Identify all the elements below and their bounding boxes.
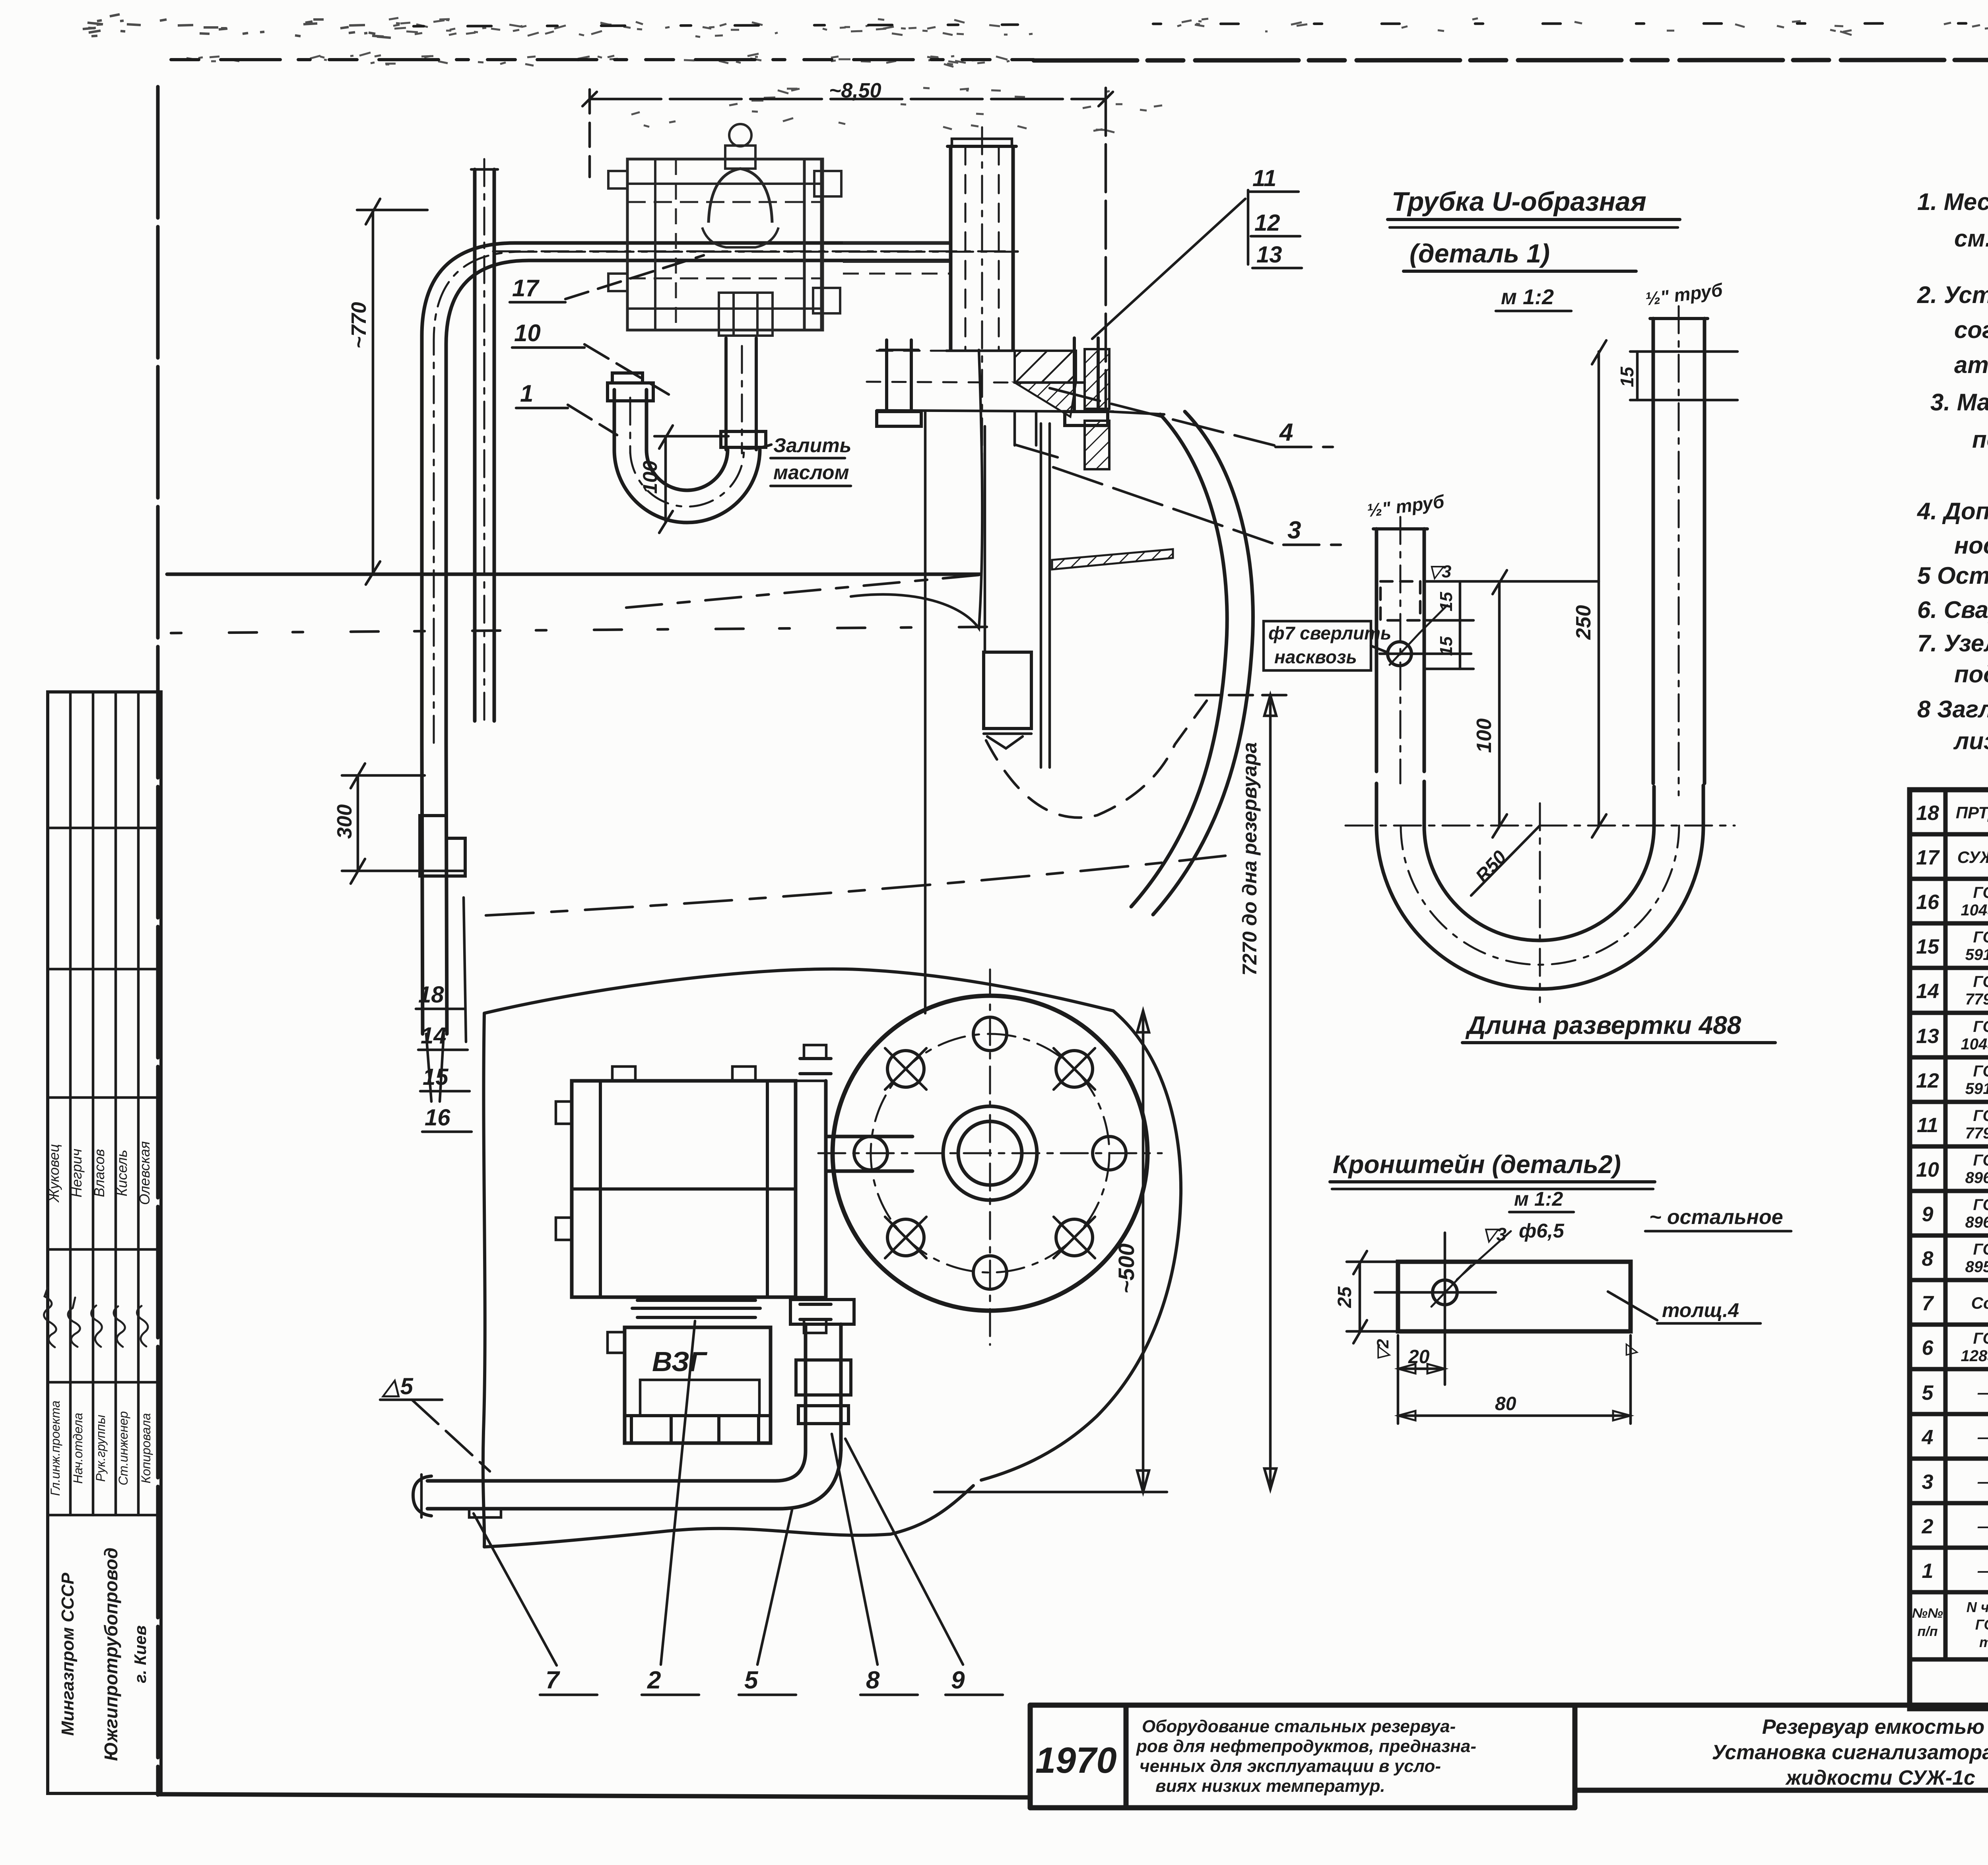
dimension 100 on oil U-tube	[639, 425, 728, 533]
bottom leader 7	[474, 1513, 597, 1695]
svg-text:2: 2	[1922, 1515, 1934, 1538]
leader 17	[510, 255, 704, 302]
svg-text:——: ——	[1977, 1472, 1988, 1491]
svg-text:1. Место установки патрубка с: 1. Место установки патрубка с фланцем( д…	[1917, 188, 1988, 215]
svg-text:½" труб: ½" труб	[1644, 279, 1724, 309]
svg-text:5915-62: 5915-62	[1965, 946, 1988, 964]
svg-text:5915-62: 5915-62	[1965, 1080, 1988, 1098]
svg-text:согласно инструкции по монтажу: согласно инструкции по монтажу,наладке и…	[1954, 317, 1988, 343]
svg-text:3. Материал кронштейна (деталь: 3. Материал кронштейна (деталь 2) -	[1930, 389, 1988, 416]
nozzle vertical pipe plan	[947, 127, 1016, 471]
conduit elbow pipe item 5	[422, 243, 1018, 743]
U-tube detail centerlines	[1345, 803, 1735, 1002]
svg-text:10450-68: 10450-68	[1961, 1035, 1988, 1053]
svg-text:Власов: Власов	[91, 1149, 107, 1197]
stamp organization box (rotated)	[58, 1548, 149, 1761]
svg-text:маслом: маслом	[773, 461, 849, 484]
svg-text:2. Установку и наладку сигнали: 2. Установку и наладку сигнализатора уро…	[1917, 282, 1988, 308]
svg-text:——: ——	[1977, 1428, 1988, 1446]
svg-text:7: 7	[1922, 1292, 1934, 1315]
spec row item 6	[1922, 1330, 1988, 1365]
svg-text:R50: R50	[1472, 847, 1511, 887]
title block grid	[1030, 1705, 1988, 1808]
svg-text:250: 250	[1572, 605, 1595, 640]
svg-text:3: 3	[1922, 1471, 1934, 1494]
svg-text:10: 10	[514, 320, 541, 346]
svg-text:Гл.инж.проекта: Гл.инж.проекта	[48, 1401, 62, 1496]
note 3	[1930, 389, 1988, 492]
stamp names column (rotated)	[46, 1141, 153, 1205]
svg-text:Нач.отдела: Нач.отдела	[71, 1413, 85, 1484]
gasket item 3	[1052, 549, 1173, 569]
U-tube detail развертка note	[1462, 1011, 1775, 1043]
svg-text:толщ.4: толщ.4	[1662, 1299, 1739, 1321]
svg-text:~ остальное: ~ остальное	[1649, 1206, 1783, 1229]
dimension 300	[333, 763, 464, 884]
svg-text:13: 13	[1916, 1025, 1939, 1048]
svg-text:16: 16	[1916, 891, 1939, 914]
svg-text:15: 15	[1437, 592, 1456, 611]
upper view cut boundary	[851, 350, 982, 628]
sheet left border line	[156, 87, 160, 1795]
note f7 drill through	[1264, 621, 1391, 670]
note Залить маслом	[740, 434, 851, 486]
device mounting flange plate	[796, 1045, 831, 1333]
svg-text:Установка сигнализатора уровня: Установка сигнализатора уровня	[1712, 1741, 1988, 1764]
view connector line	[924, 412, 927, 1013]
svg-text:ПРТД 500: ПРТД 500	[1956, 803, 1988, 822]
device-to-Utube connection pipes	[721, 338, 766, 450]
svg-text:△5: △5	[381, 1373, 414, 1399]
svg-text:виях низких температур.: виях низких температур.	[1155, 1776, 1385, 1796]
spec row item 4	[1922, 1421, 1988, 1454]
svg-text:Жуковец: Жуковец	[46, 1144, 62, 1203]
U-tube detail dim 250	[1572, 340, 1606, 837]
U-tube detail bottom bend	[1376, 781, 1703, 989]
svg-text:7. Узел установки после провед: 7. Узел установки после проведения сварк…	[1917, 630, 1988, 657]
svg-text:ченных для эксплуатации в усло: ченных для эксплуатации в усло-	[1140, 1756, 1441, 1776]
note 1	[1917, 188, 1988, 252]
svg-text:Олевская: Олевская	[136, 1141, 153, 1205]
spec row item 14	[1916, 973, 1988, 1008]
spec row item 8	[1922, 1241, 1988, 1276]
tank wall section	[1109, 412, 1253, 915]
leader 1	[516, 380, 617, 435]
svg-text:11: 11	[1917, 1114, 1938, 1137]
stamp signatures column (rotated squiggles)	[44, 1288, 148, 1347]
bracket roughness mark	[1373, 1339, 1392, 1361]
spec row item 1	[1922, 1553, 1988, 1587]
liquid level dashed line	[626, 575, 979, 608]
scan noise speckles	[186, 18, 1988, 132]
bracket detail title	[1330, 1150, 1791, 1245]
svg-text:1970: 1970	[1035, 1740, 1117, 1781]
svg-text:4. Допуски на свободные разме: 4. Допуски на свободные размеры- по 7 кл…	[1917, 498, 1988, 525]
bracket detail dim 25	[1334, 1251, 1367, 1343]
svg-text:12836-67: 12836-67	[1961, 1347, 1988, 1365]
svg-text:8 Заглушку( деталь 6) устанав: 8 Заглушку( деталь 6) устанавливать вмес…	[1917, 696, 1988, 723]
svg-text:17: 17	[1916, 846, 1940, 869]
conduit pipe lower run with cable clamps	[420, 743, 465, 1102]
svg-text:~8,50: ~8,50	[829, 79, 881, 102]
VZG junction box	[608, 1327, 771, 1443]
bracket detail dim 20	[1398, 1335, 1445, 1424]
svg-text:ф7 сверлить: ф7 сверлить	[1268, 623, 1391, 643]
svg-text:жидкости СУЖ-1с: жидкости СУЖ-1с	[1785, 1766, 1975, 1789]
svg-text:4: 4	[1279, 419, 1293, 446]
svg-text:9: 9	[951, 1667, 965, 1694]
svg-text:ности ОСТ 1010.: ности ОСТ 1010.	[1954, 532, 1988, 559]
svg-text:25: 25	[1334, 1286, 1355, 1308]
spec row item 13	[1916, 1018, 1988, 1053]
svg-text:~770: ~770	[348, 302, 371, 348]
svg-text:10450-68: 10450-68	[1961, 901, 1988, 919]
svg-text:5: 5	[744, 1667, 759, 1694]
svg-text:14: 14	[421, 1023, 447, 1049]
note 7	[1917, 630, 1988, 688]
svg-text:13: 13	[1256, 242, 1282, 268]
bottom leader 5	[739, 1510, 796, 1695]
pipe clamp on floor	[469, 1509, 501, 1517]
note 2	[1917, 282, 1988, 378]
svg-text:▽2: ▽2	[1373, 1339, 1392, 1361]
svg-text:лизатора уровня в случае его о: лизатора уровня в случае его отсутствия.	[1953, 728, 1988, 754]
svg-text:Негрич: Негрич	[68, 1149, 85, 1197]
svg-text:½" труб: ½" труб	[1366, 491, 1446, 521]
svg-text:1: 1	[520, 380, 533, 407]
svg-text:Длина развертки 488: Длина развертки 488	[1465, 1011, 1741, 1039]
svg-text:6. Сварку произвести электрод: 6. Сварку произвести электродами Э42 ГОС…	[1917, 596, 1988, 623]
svg-text:2: 2	[647, 1667, 661, 1694]
svg-text:7798-62: 7798-62	[1965, 991, 1988, 1008]
oil U-tube item 1	[608, 346, 760, 523]
svg-text:6: 6	[1922, 1337, 1934, 1360]
U-tube detail right leg	[1644, 279, 1724, 795]
horizontal conduit end cap	[413, 1475, 431, 1517]
svg-text:Трубка U-образная: Трубка U-образная	[1392, 186, 1646, 217]
spec row item 9	[1922, 1196, 1988, 1231]
svg-text:ГОСТ: ГОСТ	[1973, 973, 1988, 991]
spec row item 15	[1916, 929, 1988, 964]
U-tube detail dim 100	[1473, 570, 1507, 837]
svg-text:4: 4	[1922, 1426, 1934, 1449]
bottom leader 2	[642, 1321, 699, 1695]
svg-text:ГОСТ: ГОСТ	[1973, 1063, 1988, 1080]
svg-text:17: 17	[512, 275, 540, 301]
svg-text:ГОСТ: ГОСТ	[1973, 1196, 1988, 1214]
svg-text:ГОСТ: ГОСТ	[1973, 1107, 1988, 1125]
flange bolts crossed	[885, 1048, 1095, 1258]
svg-text:5: 5	[1922, 1381, 1934, 1405]
bracket detail dim 80	[1398, 1335, 1631, 1424]
svg-text:ГОСТ: ГОСТ	[1973, 1152, 1988, 1169]
svg-text:300: 300	[333, 804, 356, 839]
U-tube detail radius R50	[1471, 826, 1540, 896]
U-tube detail right leg dim 15	[1617, 352, 1738, 400]
svg-text:~500: ~500	[1114, 1243, 1139, 1294]
spec row item 7	[1922, 1285, 1988, 1319]
leader 10	[512, 320, 669, 394]
svg-text:ГОСТ: ГОСТ	[1973, 929, 1988, 946]
svg-text:ВЗГ: ВЗГ	[652, 1346, 708, 1377]
lower dashed line	[171, 627, 1010, 633]
bolt circle flange view	[818, 969, 1162, 1345]
note 6	[1917, 596, 1988, 623]
svg-text:11: 11	[1252, 165, 1276, 191]
svg-text:▽3: ▽3	[1428, 562, 1451, 581]
U-tube detail title	[1388, 186, 1680, 311]
svg-text:под цвет резервуара.: под цвет резервуара.	[1954, 661, 1988, 688]
svg-text:СУЖС-1с: СУЖС-1с	[1957, 848, 1988, 866]
U-tube detail left leg dims 15 15	[1424, 562, 1599, 669]
signal device plan view	[608, 124, 951, 336]
svg-text:м 1:2: м 1:2	[1514, 1188, 1563, 1210]
leader 4	[1050, 388, 1333, 447]
svg-text:насквозь: насквозь	[1274, 647, 1357, 667]
svg-text:18: 18	[418, 982, 444, 1008]
svg-text:ф6,5: ф6,5	[1519, 1220, 1565, 1242]
svg-text:полоса 4×25 ГОСТ 103-57: полоса 4×25 ГОСТ 103-57	[1972, 426, 1988, 453]
riser pipe stub	[471, 159, 498, 728]
svg-text:N черт.: N черт.	[1967, 1599, 1988, 1615]
leader 18	[416, 898, 466, 1042]
note 5	[1917, 562, 1988, 589]
bracket plate item 2 side view	[632, 1300, 760, 1317]
svg-text:80: 80	[1495, 1393, 1516, 1414]
svg-text:Оборудование стальных резервуа: Оборудование стальных резервуа-	[1142, 1717, 1456, 1736]
svg-text:——: ——	[1977, 1517, 1988, 1535]
displacer float	[984, 652, 1031, 748]
svg-text:9: 9	[1922, 1203, 1934, 1226]
svg-text:7798-62: 7798-62	[1965, 1125, 1988, 1142]
flange bolts plain	[854, 1017, 1126, 1289]
svg-text:№№: №№	[1912, 1606, 1943, 1621]
leaders 14 15 16	[418, 1023, 472, 1132]
svg-text:15: 15	[423, 1064, 448, 1090]
svg-text:100: 100	[1473, 719, 1496, 753]
svg-text:8: 8	[866, 1667, 880, 1694]
svg-text:Кисель: Кисель	[114, 1150, 130, 1196]
svg-text:14: 14	[1916, 980, 1939, 1003]
signal device front view box	[556, 1067, 796, 1297]
svg-text:Резервуар емкостью 300м³: Резервуар емкостью 300м³	[1762, 1715, 1988, 1739]
nozzle axis dashdot	[493, 251, 1018, 253]
svg-text:1: 1	[1922, 1560, 1934, 1583]
leaders 11 12 13	[1092, 165, 1302, 339]
surface mark triangle 5	[380, 1373, 490, 1471]
svg-text:п/п: п/п	[1918, 1624, 1938, 1639]
svg-text:ГОСТ: ГОСТ	[1973, 1018, 1988, 1035]
bottom leader 9	[845, 1439, 1003, 1695]
svg-text:16: 16	[425, 1105, 450, 1131]
title block sheet name	[1712, 1715, 1988, 1789]
flange joint hatched section item 4	[867, 349, 1113, 469]
note 4	[1917, 498, 1988, 559]
svg-text:——: ——	[1977, 1561, 1988, 1580]
svg-text:см. на листе Т-1.: см. на листе Т-1.	[1954, 225, 1988, 252]
device rod	[985, 424, 1050, 767]
svg-text:ГОСТ: ГОСТ	[1973, 1241, 1988, 1258]
svg-text:10: 10	[1916, 1158, 1939, 1181]
svg-text:15: 15	[1617, 366, 1637, 387]
U-tube detail left leg	[1366, 491, 1446, 783]
svg-text:ГОСТ: ГОСТ	[1975, 1616, 1988, 1633]
spec row item 11	[1917, 1107, 1988, 1142]
flange bolts item 11	[877, 338, 1108, 426]
svg-text:8961-59: 8961-59	[1965, 1214, 1988, 1231]
svg-text:12: 12	[1254, 210, 1280, 236]
svg-text:г. Киев: г. Киев	[131, 1625, 149, 1683]
conduit elbow to horizontal run	[427, 1447, 841, 1509]
lower view cut boundary blob	[483, 969, 1181, 1547]
svg-text:атации.: атации.	[1954, 352, 1988, 378]
bracket thickness note	[1608, 1292, 1761, 1323]
svg-text:100: 100	[639, 460, 661, 494]
svg-text:Рук.группы: Рук.группы	[93, 1415, 108, 1482]
title block year 1970	[1035, 1740, 1117, 1781]
spec row item 5	[1922, 1375, 1988, 1408]
side stamp table grid	[48, 692, 161, 1793]
svg-text:ГОСТ: ГОСТ	[1973, 884, 1988, 901]
svg-text:18: 18	[1916, 802, 1939, 825]
dimension ~500	[934, 1011, 1167, 1492]
title block project description	[1136, 1717, 1476, 1796]
svg-text:▽3: ▽3	[1482, 1224, 1507, 1245]
svg-text:7: 7	[546, 1667, 560, 1694]
stamp role labels column (rotated)	[48, 1401, 153, 1496]
left dimension ~770	[348, 199, 427, 585]
svg-text:Мингазпром СССР: Мингазпром СССР	[58, 1572, 78, 1736]
sheet top border line	[171, 23, 1988, 60]
dimension 7270 to tank bottom	[1196, 695, 1288, 1489]
svg-text:8954-59: 8954-59	[1965, 1258, 1988, 1276]
svg-text:8: 8	[1922, 1247, 1934, 1271]
svg-text:8962-59: 8962-59	[1965, 1169, 1988, 1187]
svg-text:5 Острые кромки обрабатываемы: 5 Острые кромки обрабатываемых деталей о…	[1917, 562, 1988, 589]
spec row item 18	[1916, 801, 1988, 825]
bracket corner roughness	[1622, 1342, 1640, 1358]
spec row item 2	[1922, 1508, 1988, 1542]
spec row item 12	[1916, 1063, 1988, 1098]
long break line of wall	[486, 856, 1225, 915]
svg-text:15: 15	[1916, 935, 1939, 958]
svg-text:м 1:2: м 1:2	[1501, 285, 1554, 309]
reference ground line	[167, 573, 980, 576]
bracket detail hole	[1375, 1231, 1511, 1385]
leader 3	[1053, 467, 1341, 545]
spec table grid	[1910, 790, 1988, 1709]
spec table header row	[1912, 1599, 1988, 1653]
svg-text:ров для нефтепродуктов, предна: ров для нефтепродуктов, предназна-	[1136, 1737, 1476, 1756]
note 8	[1917, 696, 1988, 754]
shaft to flange circle	[826, 1136, 912, 1171]
spec row item 3	[1922, 1464, 1988, 1498]
svg-text:Кронштейн (деталь2): Кронштейн (деталь2)	[1333, 1150, 1621, 1179]
spec row item 17	[1916, 835, 1988, 876]
svg-text:7270 до дна резервуара: 7270 до дна резервуара	[1239, 742, 1261, 975]
svg-text:Ст.инженер: Ст.инженер	[116, 1411, 130, 1486]
svg-text:3: 3	[1287, 517, 1301, 544]
svg-text:——: ——	[1977, 1383, 1988, 1402]
svg-text:Залить: Залить	[773, 434, 851, 457]
svg-text:20: 20	[1408, 1346, 1430, 1368]
bracket detail plate	[1347, 1262, 1631, 1331]
svg-text:ГОСТ: ГОСТ	[1973, 1330, 1988, 1347]
spec row item 10	[1916, 1152, 1988, 1187]
U-tube detail drilled hole	[1380, 605, 1471, 666]
svg-text:Южгипротрубопровод: Южгипротрубопровод	[101, 1548, 121, 1761]
svg-text:12: 12	[1916, 1069, 1939, 1092]
svg-text:Со-27: Со-27	[1971, 1294, 1988, 1312]
conduit down from device	[790, 1300, 854, 1451]
scan noise top-left	[83, 14, 391, 38]
sheet bottom border segment	[158, 1794, 1030, 1797]
svg-text:Копировала: Копировала	[139, 1413, 153, 1484]
break line around displacer	[986, 701, 1207, 818]
top dimension ~8,50	[582, 79, 1113, 410]
bottom leader 8	[832, 1434, 918, 1695]
svg-text:тип: тип	[1979, 1634, 1988, 1650]
svg-text:(деталь 1): (деталь 1)	[1409, 239, 1550, 268]
spec row item 16	[1916, 884, 1988, 919]
